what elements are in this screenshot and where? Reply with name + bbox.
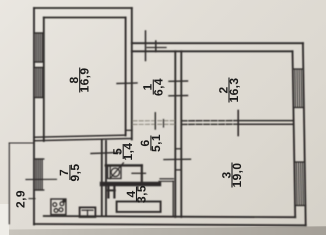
window W3 cap bottom: [34, 189, 44, 191]
door tick hallway 1 to corridor 6: [154, 113, 156, 129]
window W4 glazing lines: [294, 69, 297, 108]
balcony label leader stub: [29, 198, 35, 200]
fixture: toilet: [108, 166, 121, 179]
window W1 glazing lines: [35, 33, 37, 62]
window W2 room 8 left cap top: [34, 67, 44, 69]
wall: corridor right line B: [180, 51, 182, 217]
door lines bathroom 4: [160, 178, 174, 180]
window W2 glazing lines: [35, 68, 37, 98]
wall: hall/corridor divider dashed faint lower: [133, 123, 175, 125]
wall: partition room 8 / kitchen 7 lower line: [34, 139, 132, 141]
wall: corridor right line A: [174, 51, 176, 217]
window W5 cap bottom: [295, 205, 306, 207]
wall: kitchen right line A: [101, 140, 103, 216]
label room 7: [57, 164, 82, 182]
svg-text:9,5: 9,5: [68, 164, 82, 182]
entrance door leaf: [147, 47, 166, 49]
balcony divider tick: [26, 178, 56, 180]
duct rung lower: [175, 169, 181, 171]
wall: kitchen right line B: [105, 141, 107, 216]
wall: left interior inner line: [43, 18, 45, 142]
fixture: washbasin: [107, 185, 109, 197]
wall: top interior inner (room 8): [44, 17, 126, 19]
window W5 room 3 right cap top: [294, 161, 305, 163]
label balcony 2.9: [14, 190, 28, 208]
fixture: kitchen sink: [80, 207, 96, 217]
bottom-left white paper corner: [0, 204, 9, 235]
window W4 room 2 right cap top: [293, 68, 304, 70]
window W1 cap bottom: [34, 61, 44, 63]
wall: right exterior outer: [303, 43, 306, 225]
wall: top exterior outer (room 8): [34, 7, 132, 9]
wall: toilet/bathroom divider thick: [102, 182, 159, 186]
svg-text:1,4: 1,4: [121, 143, 135, 161]
svg-text:2,9: 2,9: [14, 190, 28, 208]
svg-text:16,9: 16,9: [78, 68, 92, 93]
label room 6: [138, 134, 163, 152]
wall: left exterior outer line: [33, 8, 35, 225]
fixture: stove: [51, 199, 66, 215]
wall: rooms 2/3 divider solid upper: [238, 120, 293, 122]
label room 3: [219, 163, 244, 188]
wall: top exterior outer (rooms 1,2): [132, 42, 303, 44]
jog room8 wall cap: [126, 129, 132, 131]
wall: bathroom right: [172, 181, 174, 216]
wall: hall/corridor divider dashed faint upper: [133, 120, 175, 122]
window W5 glazing lines: [295, 162, 298, 206]
svg-text:3,5: 3,5: [135, 185, 149, 203]
wall: partition room 8 / kitchen 7 upper line: [34, 135, 126, 137]
wall: toilet 5 top: [106, 164, 142, 166]
fixture: bathtub: [117, 202, 161, 212]
svg-text:6,4: 6,4: [151, 78, 165, 96]
window W3 glazing lines: [35, 159, 37, 190]
wall: bottom exterior outer: [34, 224, 306, 225]
label room 8: [67, 68, 92, 93]
svg-text:5,1: 5,1: [149, 134, 163, 152]
door tick room 8: [117, 82, 137, 85]
wall: bottom interior inner: [44, 216, 295, 217]
small tick corridor wall: [163, 120, 165, 128]
wall: toilet 5 right: [141, 165, 143, 183]
wall: rooms 2/3 divider dashed part upper: [181, 120, 238, 122]
svg-text:16,3: 16,3: [227, 78, 241, 103]
label room 1: [141, 78, 166, 96]
door tick corridor 6 to room 3: [164, 158, 191, 160]
door tick toilet 5: [132, 172, 146, 174]
window W4 cap bottom: [293, 107, 304, 109]
bottom scan shadow band: [0, 225, 326, 235]
label room 4: [124, 185, 149, 203]
wall: right interior inner: [293, 51, 296, 217]
wall: rooms 2/3 divider solid lower: [238, 123, 293, 125]
wall: room 8 right outer / step: [131, 8, 133, 140]
wall: room 8 right inner: [125, 18, 127, 136]
duct rung upper: [175, 148, 181, 150]
entrance ticks at top wall: [145, 31, 147, 61]
window W1 room 8 left cap top: [34, 32, 44, 34]
door ticks hallway 1 to room 2: [169, 80, 188, 82]
partition end tick rooms 2/3: [237, 111, 239, 136]
balcony outline left: [8, 143, 10, 224]
balcony outline top: [9, 142, 34, 144]
label room 5: [111, 143, 136, 161]
wall: top interior inner (rooms 1,2): [132, 50, 293, 52]
window W3 kitchen left cap top: [34, 158, 44, 160]
label room 2: [216, 78, 241, 103]
door tick kitchen: [91, 153, 120, 154]
svg-text:19,0: 19,0: [230, 163, 244, 188]
wall: rooms 2/3 divider dashed part lower: [181, 123, 238, 125]
window W2 cap bottom: [34, 97, 44, 99]
